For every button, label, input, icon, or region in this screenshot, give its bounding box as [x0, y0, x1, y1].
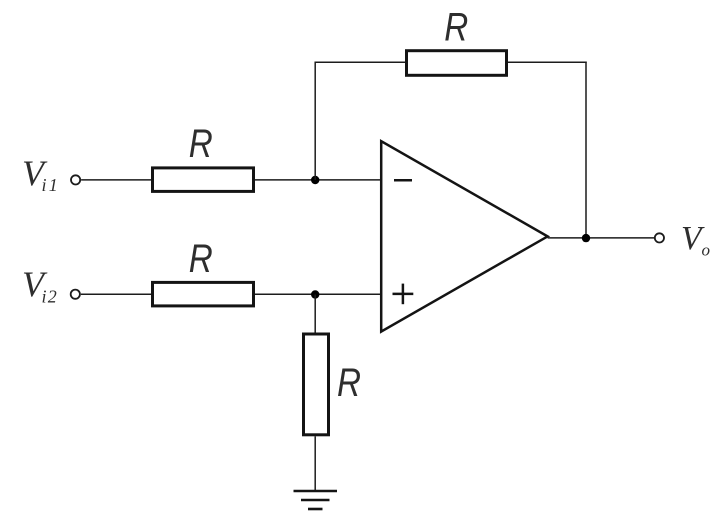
wire Vi1 terminal to R2 — [81, 179, 151, 181]
resistor R3 (Vi2 input) — [153, 282, 254, 306]
wire feedback top right — [508, 61, 587, 63]
node Vi1 label — [22, 153, 60, 195]
wire R3 to op-amp non-inverting input — [255, 293, 382, 295]
svg-text:R: R — [189, 122, 213, 166]
svg-text:R: R — [444, 5, 468, 49]
wire Vi2 terminal to R3 — [81, 293, 151, 295]
op-amp U1 inverting pin marker — [394, 179, 412, 182]
ground — [294, 491, 338, 509]
wire R4 to ground — [314, 436, 316, 491]
terminal Vo — [655, 233, 664, 242]
svg-text:i1: i1 — [42, 175, 60, 195]
wire feedback right vertical — [585, 62, 587, 238]
svg-text:o: o — [702, 241, 711, 260]
svg-text:R: R — [337, 361, 361, 405]
wire node B to R4 — [314, 295, 316, 335]
terminal Vi1 — [71, 175, 80, 184]
resistor R4 (to ground) — [304, 334, 329, 435]
wire op-amp output to Vo terminal — [548, 237, 654, 239]
svg-text:i2: i2 — [42, 287, 58, 307]
resistor R2 (Vi1 input) — [153, 168, 254, 192]
node Vo label — [681, 220, 710, 260]
junction node A (inverting input) — [311, 176, 319, 184]
node Vi2 label — [22, 264, 58, 307]
op-amp U1 — [381, 141, 547, 331]
terminal Vi2 — [71, 290, 80, 299]
junction node output — [582, 234, 590, 242]
svg-text:R: R — [189, 237, 213, 281]
junction node B (non-inverting input) — [311, 290, 319, 298]
op-amp U1 non-inverting pin marker — [393, 284, 414, 305]
wire feedback left vertical — [314, 62, 316, 180]
resistor R1 (feedback) — [407, 51, 507, 76]
wire R2 to op-amp inverting input — [255, 179, 382, 181]
wire feedback top left — [315, 61, 406, 63]
